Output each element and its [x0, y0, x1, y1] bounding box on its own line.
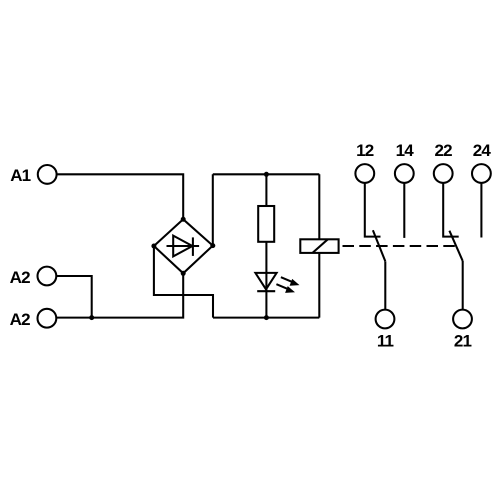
- svg-text:A1: A1: [10, 166, 30, 185]
- node bridge left: [151, 244, 156, 249]
- terminal A2 (upper): [38, 267, 57, 286]
- LED arrow 2: [276, 284, 295, 293]
- wire A1 to bridge top: [57, 174, 184, 219]
- switch lever contact 21: [449, 231, 462, 261]
- junction dot bottom rail: [264, 315, 269, 320]
- svg-text:A2: A2: [10, 310, 30, 329]
- node bridge bottom: [181, 271, 186, 276]
- wire bridge right to top rail: [212, 174, 214, 245]
- svg-text:24: 24: [473, 141, 492, 160]
- junction dot A2: [89, 315, 94, 320]
- wire A2 lower to bridge bottom: [56, 273, 183, 317]
- resistor R1: [258, 206, 274, 242]
- terminal 11: [376, 310, 395, 329]
- wire resistor branch upper: [265, 174, 267, 206]
- wire top rail to coil: [318, 174, 320, 239]
- wire bottom rail: [213, 317, 319, 319]
- terminal 21: [453, 310, 472, 329]
- node bridge right: [210, 243, 215, 248]
- bridge diode symbol: [167, 236, 200, 257]
- terminal 12: [355, 164, 374, 183]
- wire lever to terminal 11: [384, 261, 386, 309]
- wire contact 12: [365, 183, 381, 237]
- wire top rail: [213, 173, 319, 175]
- terminal 24: [472, 164, 491, 183]
- svg-text:14: 14: [396, 141, 415, 160]
- terminal 22: [434, 164, 453, 183]
- wire contact 22: [443, 183, 459, 237]
- bridge rectifier B1 diamond: [154, 219, 213, 273]
- svg-text:21: 21: [454, 332, 472, 351]
- wire resistor to LED: [265, 242, 267, 318]
- wire bridge left to bottom rail: [154, 246, 213, 318]
- wire coil to bottom rail: [318, 253, 320, 318]
- dashed mechanical link: [343, 245, 457, 247]
- terminal A2 (lower): [38, 309, 57, 328]
- wire contact 14: [403, 183, 405, 238]
- svg-text:A2: A2: [10, 268, 30, 287]
- relay coil K1: [300, 239, 338, 253]
- wire lever to terminal 21: [462, 261, 464, 310]
- svg-text:22: 22: [435, 141, 453, 160]
- node bridge top: [181, 217, 186, 222]
- junction dot top rail: [264, 172, 269, 177]
- terminal A1: [38, 165, 57, 184]
- terminal 14: [395, 164, 414, 183]
- LED arrow 1: [281, 277, 300, 286]
- LED D1: [255, 273, 276, 291]
- switch lever contact 11: [373, 230, 385, 261]
- svg-text:12: 12: [356, 141, 374, 160]
- wire contact 24: [480, 183, 482, 238]
- svg-text:11: 11: [377, 332, 394, 351]
- wire A2 upper to junction: [56, 276, 91, 318]
